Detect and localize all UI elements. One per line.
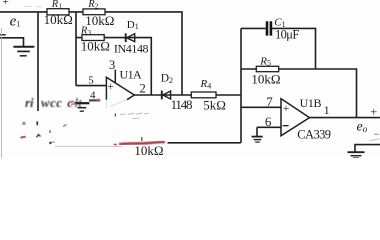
svg-text:ri: ri	[25, 95, 34, 110]
svg-text:wcc: wcc	[41, 95, 62, 110]
svg-text:1: 1	[324, 103, 330, 117]
watermark erased bottom wire faint	[55, 145, 122, 147]
wire top rail from e1+ through R1 R2 turning down at x=182 to U1A output row	[0, 12, 182, 95]
svg-text:10kΩ: 10kΩ	[134, 143, 163, 158]
watermark dark tick above 10k bottom	[141, 137, 143, 141]
watermark faded struck text under U1A	[120, 113, 149, 119]
svg-text:e1: e1	[10, 14, 21, 30]
wire U1B output row	[310, 117, 380, 119]
wire U1A pin5 lead	[76, 85, 106, 87]
svg-text:D1: D1	[127, 19, 139, 31]
svg-text:+: +	[370, 105, 377, 119]
watermark pink dot row2 a	[22, 122, 25, 125]
resistor R3	[82, 35, 104, 41]
op-amp U1A pin3 stub	[114, 70, 116, 83]
wire left branch vertical x=38	[37, 12, 39, 111]
watermark pink text row	[25, 95, 82, 110]
op-amp U1A (lower edges faded by watermark removal)	[106, 77, 134, 109]
diode D1	[126, 33, 135, 42]
watermark red nub left of strike	[114, 144, 118, 146]
faint remnant dashes top	[24, 6, 42, 8]
svg-text:6: 6	[265, 114, 272, 129]
svg-text:R5: R5	[259, 55, 271, 67]
wire U1B pin7 lead	[241, 106, 281, 108]
svg-text:+: +	[107, 81, 114, 93]
svg-text:4: 4	[90, 90, 96, 102]
watermark remnant check mark	[36, 135, 40, 138]
svg-text:7: 7	[266, 94, 273, 109]
svg-text:lt: lt	[75, 95, 83, 110]
svg-text:10μF: 10μF	[275, 27, 299, 41]
wire junction vertical x=76 from top rail to U1A pin5	[75, 12, 77, 86]
watermark red strike over bottom resistor	[119, 142, 165, 144]
wire U1B pin6 lead and ground riser	[257, 127, 281, 136]
resistor R2	[83, 9, 105, 15]
svg-text:5: 5	[88, 74, 94, 86]
svg-text:R1: R1	[51, 0, 62, 10]
op-amp U1B	[281, 99, 310, 136]
svg-text:3: 3	[109, 58, 115, 72]
watermark pink smudge left of pin4 ground	[70, 101, 76, 104]
watermark small dash row2 e	[52, 141, 54, 143]
watermark pink dot row2 d	[49, 130, 51, 133]
wire U1A output row through D2 and R4 to x=241	[134, 94, 241, 96]
ground of output terminal	[348, 152, 365, 158]
ground of e1 source	[13, 47, 34, 56]
svg-text:eo: eo	[357, 120, 368, 135]
watermark faint diagonal bottom right	[370, 139, 380, 141]
label e1 minus	[0, 34, 6, 36]
wire vertical x=241 from cap row down to bottom row	[240, 28, 242, 142]
scan edge artifact left	[1, 28, 3, 158]
svg-text:R4: R4	[200, 78, 212, 90]
ground of U1B pin6	[252, 137, 263, 143]
svg-text:R2: R2	[87, 0, 98, 10]
U1B minus sign	[283, 125, 289, 127]
svg-text:D2: D2	[161, 72, 173, 84]
svg-text:2: 2	[140, 81, 146, 95]
watermark dark fleck under U1A	[114, 113, 116, 116]
svg-text:+: +	[283, 103, 290, 115]
watermark red dash row2	[20, 137, 25, 138]
svg-text:10kΩ: 10kΩ	[81, 38, 110, 53]
watermark remnant dark dot near bottom row	[49, 142, 51, 145]
label e0 minus faint	[374, 133, 379, 135]
svg-text:U1B: U1B	[300, 96, 322, 110]
svg-text:10kΩ: 10kΩ	[85, 13, 114, 28]
svg-text:5kΩ: 5kΩ	[203, 97, 226, 112]
svg-text:U1A: U1A	[120, 68, 142, 82]
svg-text:+: +	[2, 0, 8, 8]
wire bottom row right part	[168, 142, 241, 144]
wire capacitor row	[241, 28, 316, 69]
resistor R1	[47, 9, 69, 15]
svg-text:1148: 1148	[171, 97, 192, 112]
wire e1 minus lead to ground	[0, 38, 24, 47]
svg-text:IN4148: IN4148	[114, 42, 149, 56]
wire R5 row then down at x=356.5 to U1B output	[241, 69, 357, 118]
svg-text:R3: R3	[80, 26, 91, 37]
wire output ground lead	[355, 145, 380, 152]
resistor R4	[191, 92, 216, 98]
svg-text:CA339: CA339	[297, 127, 330, 141]
wire R3 D1 row then down at x=151.3 to output row	[76, 38, 151, 95]
watermark remnant of x38 vertical lower part	[36, 121, 38, 125]
capacitor C1 plates	[267, 21, 271, 35]
diode D2	[162, 91, 171, 100]
svg-text:10kΩ: 10kΩ	[44, 12, 73, 27]
watermark pink dot row2 b	[63, 125, 66, 127]
op-amp U1A pin4 stub	[89, 99, 100, 101]
svg-text:10kΩ: 10kΩ	[251, 72, 280, 87]
ground of U1A pin4	[74, 103, 89, 111]
watermark pink dash near pin4	[96, 99, 100, 101]
resistor R5	[256, 66, 278, 71]
